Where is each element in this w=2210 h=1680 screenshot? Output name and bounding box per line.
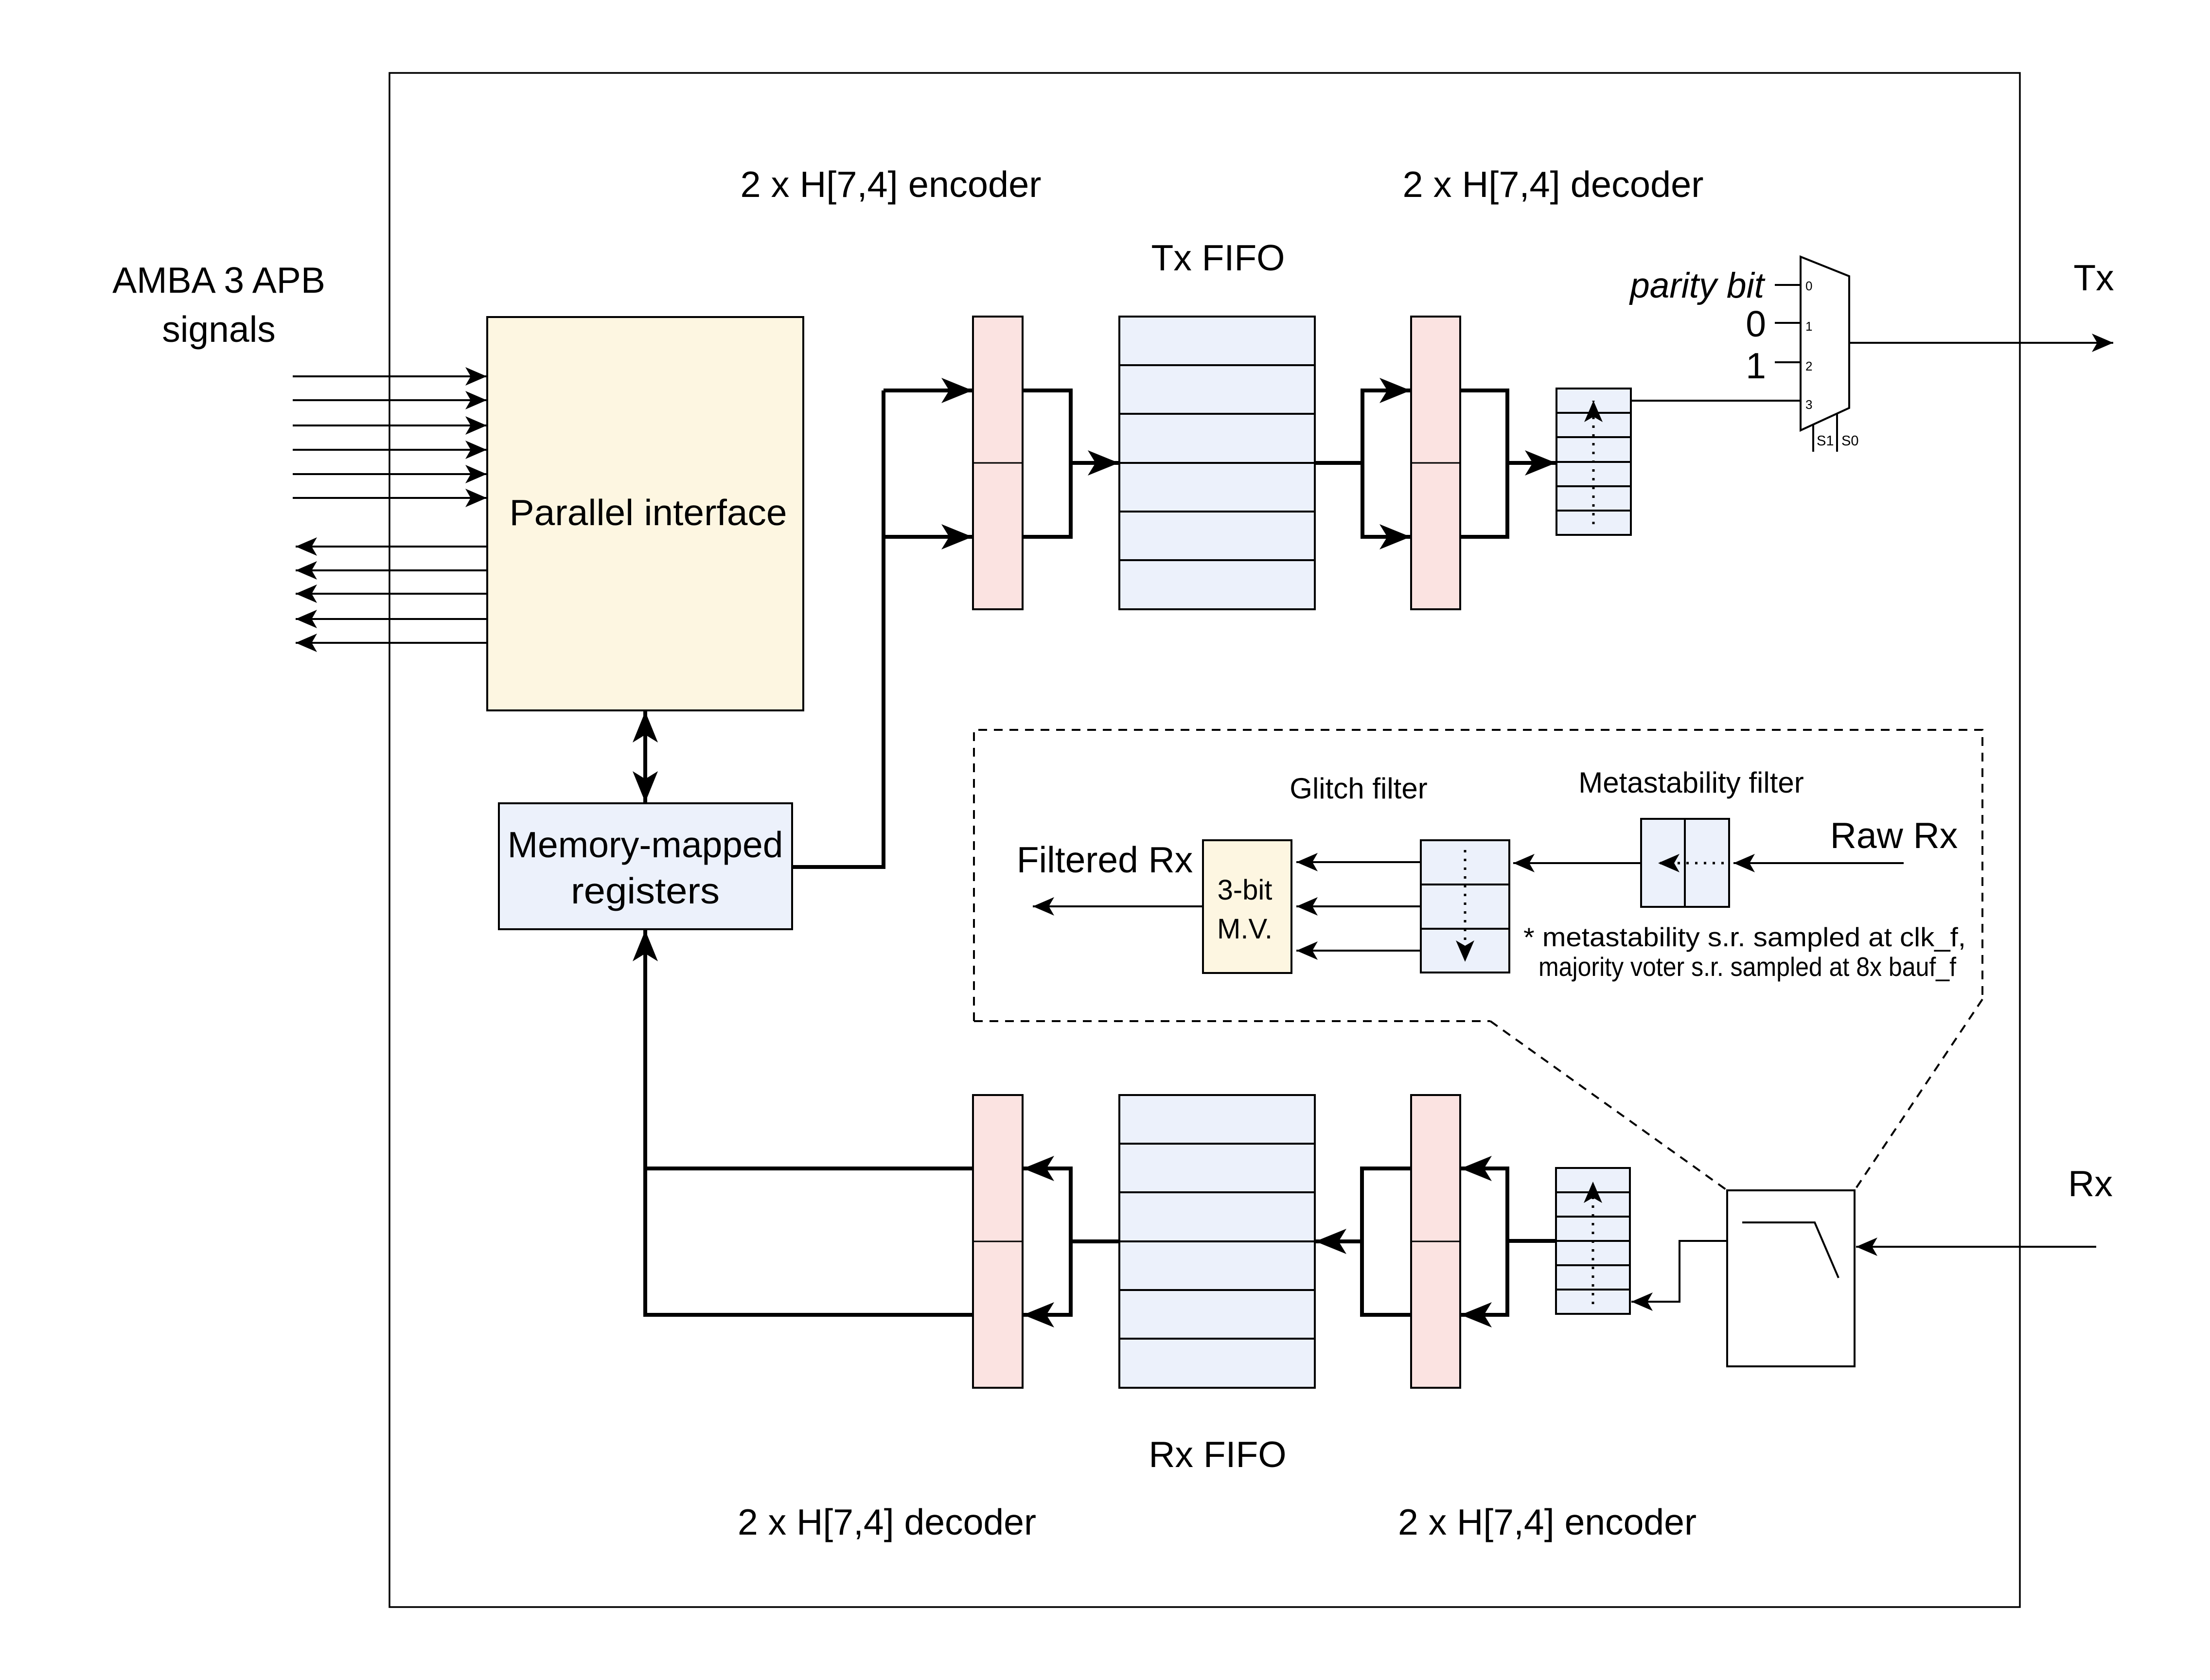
svg-text:2 x H[7,4] decoder: 2 x H[7,4] decoder [738,1502,1036,1542]
svg-text:3-bit: 3-bit [1218,874,1273,906]
svg-text:Raw Rx: Raw Rx [1830,815,1958,856]
svg-text:Tx FIFO: Tx FIFO [1151,237,1285,278]
svg-text:Filtered Rx: Filtered Rx [1017,839,1193,880]
svg-text:0: 0 [1746,303,1766,344]
svg-text:Rx FIFO: Rx FIFO [1149,1434,1286,1475]
svg-text:2 x H[7,4] encoder: 2 x H[7,4] encoder [1398,1502,1697,1542]
svg-text:1: 1 [1746,345,1766,386]
svg-text:2: 2 [1805,359,1812,373]
svg-text:majority voter s.r. sampled at: majority voter s.r. sampled at 8x bauf_f [1538,952,1957,982]
svg-text:2 x H[7,4] decoder: 2 x H[7,4] decoder [1403,164,1704,205]
svg-text:parity bit: parity bit [1629,266,1766,305]
svg-text:0: 0 [1805,279,1812,293]
svg-text:* metastability s.r. sampled a: * metastability s.r. sampled at clk_f, [1523,922,1966,952]
svg-text:S1: S1 [1817,433,1834,449]
svg-text:registers: registers [571,870,720,911]
svg-text:Glitch filter: Glitch filter [1290,772,1427,805]
svg-text:M.V.: M.V. [1217,913,1273,945]
svg-text:AMBA 3 APB: AMBA 3 APB [112,260,325,301]
svg-text:Memory-mapped: Memory-mapped [508,824,783,865]
svg-text:Parallel interface: Parallel interface [510,492,787,533]
svg-text:1: 1 [1805,319,1812,334]
svg-text:2 x H[7,4] encoder: 2 x H[7,4] encoder [741,164,1042,205]
svg-text:Tx: Tx [2073,257,2114,298]
svg-text:Metastability filter: Metastability filter [1578,766,1803,799]
svg-text:signals: signals [162,309,275,350]
svg-text:3: 3 [1805,397,1812,412]
svg-text:S0: S0 [1841,433,1858,449]
svg-text:Rx: Rx [2068,1163,2113,1204]
